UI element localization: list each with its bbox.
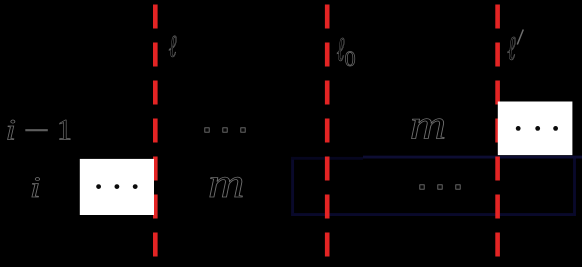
svg-text:i: i: [30, 171, 41, 204]
svg-text:ℓ: ℓ: [337, 31, 345, 68]
label l0 (top, second line): [337, 31, 356, 72]
svg-text:m: m: [410, 103, 447, 149]
svg-text:0: 0: [345, 46, 356, 71]
highlight rectangle (row i, job m region): [291, 157, 582, 216]
dashed line l: [153, 5, 158, 257]
white job box row i: [80, 159, 154, 215]
label i-1 (left, upper row): [6, 113, 73, 146]
dots in row-(i-1) box: [516, 126, 558, 131]
svg-text:1: 1: [57, 113, 72, 146]
dashed line l0: [325, 5, 330, 257]
label l' (top, third line): [507, 30, 523, 68]
white job box row i-1: [498, 102, 573, 156]
svg-text:i: i: [6, 113, 17, 146]
cdots row i-1 between l and l0: [205, 128, 245, 132]
svg-text:ℓ: ℓ: [507, 30, 516, 68]
cdots inside highlight rectangle: [420, 185, 460, 189]
dashed line l': [495, 5, 500, 257]
dots in row-i box: [96, 184, 137, 189]
label l (top, first line): [169, 29, 177, 64]
svg-text:m: m: [208, 161, 245, 207]
svg-text:ℓ: ℓ: [169, 29, 177, 64]
